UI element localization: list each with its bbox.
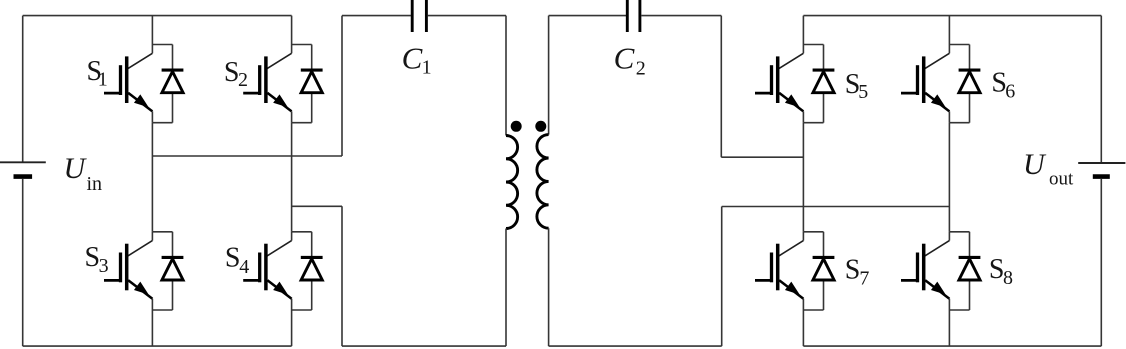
wire: secondary to right leg1 midpoint: [721, 156, 803, 158]
svg-text:in: in: [87, 173, 103, 195]
wire: left leg1 bottom wire (S3 to bottom bus): [151, 310, 153, 346]
wire: secondary bottom riser: [721, 207, 723, 347]
wire: transformer secondary top lead: [548, 16, 550, 135]
wire: transformer secondary bottom lead: [548, 228, 550, 346]
wire: right leg2 bottom wire: [948, 310, 950, 346]
wire: secondary top wire left of C2: [549, 15, 626, 17]
transformer secondary polarity dot: [535, 121, 546, 132]
wire: top bus of input bridge: [23, 15, 292, 17]
wire: secondary top corner riser: [720, 16, 722, 158]
svg-text:out: out: [1049, 169, 1074, 190]
wire: left battery bottom lead: [22, 179, 24, 346]
svg-text:1: 1: [422, 56, 432, 78]
svg-text:U: U: [1023, 148, 1047, 181]
wire: left leg2 bottom wire (S4 to bottom bus): [291, 310, 293, 346]
wire: primary top wire left of C1: [342, 15, 411, 17]
wire: primary bottom wire: [342, 345, 506, 347]
battery Uin negative plate (short thick): [14, 174, 33, 179]
wire: primary bottom riser: [341, 206, 343, 346]
wire: left leg2 midpoint wire (S2 emitter to S4 collector): [291, 123, 293, 232]
transistor S4 (IGBT with antiparallel diode): [243, 232, 322, 310]
transistor S8 (IGBT with antiparallel diode): [901, 232, 980, 310]
wire: right leg2 collector wire: [948, 16, 950, 45]
capacitor C1 left plate: [411, 0, 414, 32]
transformer primary polarity dot: [511, 121, 522, 132]
transformer primary winding: [506, 136, 518, 229]
svg-text:6: 6: [1005, 81, 1015, 103]
svg-text:S: S: [225, 243, 241, 274]
wire: left leg2 collector wire (bus to S2): [291, 16, 293, 45]
transistor S6 (IGBT with antiparallel diode): [901, 45, 980, 123]
capacitor C2 right plate: [638, 0, 641, 32]
svg-text:2: 2: [238, 69, 248, 91]
svg-text:7: 7: [859, 268, 869, 290]
svg-text:3: 3: [99, 255, 109, 277]
wire: right leg2 midpoint wire (S6 emitter to S8 collector): [948, 123, 950, 232]
wire: bottom bus of output bridge: [803, 345, 1101, 347]
battery Uin positive plate (long): [0, 161, 46, 163]
wire: transformer primary top lead: [505, 16, 507, 136]
svg-text:S: S: [845, 255, 861, 286]
transistor S1 (IGBT with antiparallel diode): [104, 45, 183, 123]
battery Uout positive plate (long): [1078, 162, 1125, 164]
transistor S7 (IGBT with antiparallel diode): [755, 232, 834, 310]
wire: right leg1 midpoint wire (S5 emitter to S7 collector): [802, 123, 804, 232]
svg-text:4: 4: [239, 256, 249, 278]
capacitor C2 left plate: [626, 0, 629, 32]
wire: left leg1 collector wire (bus to S1): [151, 16, 153, 45]
wire: phase-B bus from left leg2 midpoint to primary bottom riser: [292, 205, 342, 207]
wire: bottom bus of input bridge: [23, 345, 292, 347]
wire: secondary top wire right of C2: [641, 15, 721, 17]
transistor S2 (IGBT with antiparallel diode): [243, 45, 322, 123]
svg-text:C: C: [614, 41, 635, 76]
wire: top bus of output bridge: [803, 15, 1101, 17]
wire: right leg1 bottom wire: [802, 310, 804, 346]
wire: right leg1 collector wire: [802, 16, 804, 45]
svg-text:5: 5: [858, 81, 868, 103]
transformer secondary winding: [537, 135, 549, 229]
wire: primary top wire right of C1: [428, 15, 506, 17]
wire: transformer primary bottom lead: [505, 229, 507, 347]
wire: left battery top lead: [22, 16, 24, 162]
battery Uout negative plate (short thick): [1093, 174, 1110, 179]
transistor S3 (IGBT with antiparallel diode): [104, 232, 183, 310]
wire: phase-A bus from left leg1 midpoint to primary riser: [152, 155, 342, 157]
svg-text:8: 8: [1003, 267, 1013, 289]
svg-text:C: C: [402, 41, 423, 76]
svg-text:U: U: [64, 152, 88, 185]
wire: right battery bottom lead: [1100, 179, 1102, 346]
wire: secondary bottom wire: [549, 345, 722, 347]
wire: primary top riser: [341, 16, 343, 156]
wire: left leg1 midpoint wire (S1 emitter to S3 collector): [151, 123, 153, 232]
wire: right battery top lead: [1100, 16, 1102, 163]
svg-text:2: 2: [636, 57, 646, 79]
transistor S5 (IGBT with antiparallel diode): [755, 45, 834, 123]
capacitor C1 right plate: [425, 0, 428, 32]
wire: secondary bottom bus to right leg2 midpoint (crosses leg1): [722, 206, 950, 208]
svg-text:1: 1: [98, 69, 108, 91]
